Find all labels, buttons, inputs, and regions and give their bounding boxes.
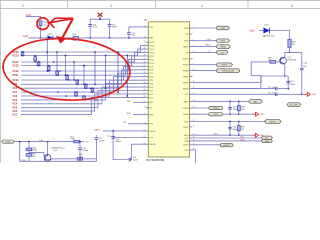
port tag SDA — [261, 139, 273, 142]
svg-text:2.2uF: 2.2uF — [93, 27, 99, 29]
svg-text:REG1: REG1 — [183, 82, 189, 84]
svg-text:VC15: VC15 — [12, 54, 19, 57]
wire bus row VC16 — [21, 46, 147, 52]
svg-text:SRP: SRP — [127, 101, 132, 103]
svg-text:42: 42 — [144, 41, 146, 43]
svg-text:REGS: REGS — [183, 88, 189, 90]
wire DCHG row — [192, 107, 209, 109]
wire BAT row — [192, 100, 249, 102]
capacitor C17 cell — [95, 135, 97, 137]
junction — [48, 70, 50, 72]
resistor R65 — [270, 61, 276, 64]
wire VIO row — [192, 93, 275, 95]
resistor R50 on rail — [73, 37, 79, 40]
svg-text:GND: GND — [260, 114, 265, 116]
resistor bus R49 — [75, 92, 78, 96]
wire ALERT row — [192, 144, 220, 146]
capacitor C22 — [276, 93, 277, 96]
svg-text:VC16: VC16 — [149, 42, 155, 44]
junction — [238, 113, 240, 115]
wire HDQ row — [192, 134, 254, 136]
wire REG1 to C19 — [290, 52, 302, 67]
svg-text:C21 1uF: C21 1uF — [268, 87, 276, 89]
junction — [65, 74, 67, 76]
wire between divider — [28, 151, 30, 154]
svg-text:C22 1uF: C22 1uF — [268, 93, 276, 95]
junction — [66, 74, 68, 76]
junction — [57, 91, 59, 93]
svg-text:100nF: 100nF — [99, 140, 105, 142]
svg-text:BQ76940PFBR: BQ76940PFBR — [147, 158, 165, 162]
wire SDA row — [192, 140, 261, 142]
sheet border top band — [0, 0, 320, 163]
wire C21 to vertical — [277, 88, 288, 90]
svg-text:PACK: PACK — [206, 44, 212, 47]
capacitor C14 — [127, 33, 131, 35]
svg-text:VC14: VC14 — [149, 49, 155, 51]
junction — [77, 79, 79, 81]
junction — [59, 70, 61, 72]
wire C16 bottom lead — [89, 27, 91, 38]
svg-text:VC4: VC4 — [12, 103, 17, 106]
wire bus row VC3 — [21, 91, 147, 108]
wire bus row VC7 — [21, 77, 147, 92]
wire cap tops — [90, 18, 109, 20]
wire R62 right — [79, 141, 83, 143]
svg-text:6: 6 — [193, 57, 194, 59]
junction — [73, 61, 75, 63]
svg-text:24: 24 — [144, 106, 146, 108]
svg-text:SDA: SDA — [184, 140, 189, 143]
U1 right pins — [183, 27, 195, 152]
svg-text:VC1: VC1 — [12, 114, 17, 117]
junction — [22, 55, 24, 57]
wire C12 branch — [112, 131, 114, 137]
junction — [65, 55, 67, 57]
annotation ellipse — [1, 35, 131, 103]
svg-text:HDQ: HDQ — [184, 135, 189, 137]
bus net labels VC16..VC1 — [12, 51, 19, 117]
svg-text:VSS: VSS — [184, 150, 189, 152]
wire base path from REGS pin — [192, 62, 270, 89]
capacitor C12 — [111, 137, 115, 139]
wire DSG — [192, 40, 216, 42]
resistor bus R44 — [56, 71, 59, 75]
capacitor C23 — [228, 101, 231, 114]
svg-text:100nF: 100nF — [116, 141, 122, 143]
wire bus row VC11 — [21, 63, 147, 75]
svg-text:PACK: PACK — [221, 46, 227, 49]
svg-text:VIO: VIO — [185, 94, 189, 96]
power arrow GND row1 — [253, 112, 259, 116]
junction C16 bottom — [89, 37, 91, 39]
resistor R63 — [288, 39, 291, 47]
svg-text:PACK: PACK — [183, 46, 189, 49]
wire TS3 — [113, 137, 147, 139]
power arrow GND row2 — [253, 133, 259, 137]
junction — [34, 61, 36, 63]
wire SCL row — [192, 137, 261, 139]
svg-text:SRP: SRP — [149, 102, 154, 104]
svg-text:SRN: SRN — [126, 113, 131, 115]
svg-text:FUSE_BLOW: FUSE_BLOW — [222, 71, 234, 73]
svg-text:VC11: VC11 — [12, 74, 19, 77]
capacitor C16 — [88, 25, 92, 27]
wire bus row VC5 — [21, 84, 147, 100]
port tag PACK — [216, 45, 231, 49]
svg-text:10k: 10k — [268, 60, 271, 62]
port tag DCHG oval — [209, 106, 223, 109]
svg-text:5: 5 — [291, 4, 293, 8]
resistor R56 — [26, 148, 32, 151]
junction — [83, 95, 85, 97]
junction C13/R60 — [79, 158, 81, 160]
junction — [85, 84, 87, 86]
svg-text:9: 9 — [193, 75, 194, 77]
wire C13 bottom — [79, 150, 81, 159]
port tag LD — [216, 51, 228, 55]
junction — [105, 55, 107, 57]
capacitor C24 — [228, 122, 231, 136]
junction — [94, 51, 96, 53]
port tag CHG oval — [209, 113, 223, 116]
junction — [34, 55, 36, 57]
junction power/top wire — [99, 18, 101, 20]
svg-text:10R: 10R — [73, 40, 77, 42]
junction RP/rail — [40, 37, 42, 39]
resistor bus R47 — [84, 84, 87, 88]
junction — [85, 87, 87, 89]
svg-text:Q16: Q16 — [54, 150, 58, 152]
wire C14 top lead — [128, 27, 130, 33]
svg-text:1k: 1k — [44, 25, 46, 27]
svg-text:DSG: DSG — [207, 39, 212, 41]
resistor bus R46 — [76, 80, 79, 84]
wire rail right segment — [79, 37, 147, 39]
wire C18 branch vertical — [287, 76, 289, 89]
junction — [117, 91, 119, 93]
wire Q16 drain — [51, 158, 77, 160]
junction — [47, 141, 49, 143]
junction — [75, 91, 77, 93]
svg-text:Cat5: Cat5 — [250, 29, 256, 32]
svg-text:100R: 100R — [70, 139, 75, 141]
svg-text:PDSG: PDSG — [221, 65, 227, 67]
svg-text:DSG: DSG — [221, 41, 226, 43]
wire bus vertical C — [73, 62, 75, 80]
wire bus vertical tall — [94, 52, 96, 84]
junction — [69, 79, 71, 81]
resistor bus R48 — [91, 88, 94, 92]
op-amp U1 AFE IC body — [148, 22, 189, 157]
svg-text:VC7: VC7 — [12, 91, 17, 94]
wire bus vertical tall — [117, 52, 119, 92]
svg-text:17: 17 — [193, 126, 195, 128]
port tag ALERT oval — [220, 144, 233, 147]
junction — [229, 121, 231, 123]
wire bus vertical tall — [126, 56, 128, 97]
svg-text:VC8: VC8 — [12, 87, 17, 90]
port tag CHG — [216, 26, 230, 30]
junction emitter node — [284, 75, 286, 77]
annotation arrow down — [57, 18, 73, 43]
junction collector node — [289, 52, 291, 54]
wire RST row — [192, 121, 264, 123]
svg-text:2: 2 — [193, 33, 194, 35]
resistor R62 — [74, 140, 79, 143]
junction — [83, 83, 85, 85]
svg-text:VC12: VC12 — [149, 56, 155, 58]
junction C19/GND row — [301, 93, 303, 95]
svg-text:CHG: CHG — [213, 114, 218, 116]
wire top CAT5 horizontal — [26, 16, 41, 20]
junction — [75, 95, 77, 97]
svg-text:VC6: VC6 — [12, 95, 17, 98]
junction — [38, 65, 40, 67]
wire bus row VC2 — [21, 94, 147, 111]
svg-text:GND: GND — [312, 94, 317, 96]
resistor bus R45 — [66, 75, 69, 80]
port tag BAT — [249, 100, 262, 104]
port tag CAT5 (bottom) — [2, 140, 15, 143]
svg-text:VC10: VC10 — [12, 79, 19, 82]
capacitor C19 — [300, 68, 304, 70]
svg-text:BAWD: BAWD — [94, 128, 101, 131]
wire C17 bottom — [95, 140, 97, 162]
junction — [105, 87, 107, 89]
junction BAWD — [112, 130, 114, 132]
capacitor C18 — [286, 81, 290, 83]
wire bus row VC10 — [21, 66, 147, 80]
resistor R60 — [77, 158, 82, 161]
wire bus row VC1 — [21, 97, 147, 114]
wire R65 to base — [276, 61, 281, 63]
wire C22 right — [277, 93, 305, 95]
wire FUSE — [192, 70, 216, 72]
wire bus row VC13 — [21, 56, 147, 66]
svg-text:VC10: VC10 — [149, 63, 155, 65]
wire bottom rail — [15, 141, 75, 143]
junction — [229, 134, 231, 136]
svg-text:REGIN: REGIN — [149, 144, 156, 146]
wire VSS down — [192, 150, 195, 163]
junction — [95, 99, 97, 101]
wire bus row VC8 — [21, 73, 147, 88]
junction — [46, 70, 48, 72]
port tag NC_SPE — [287, 103, 301, 107]
svg-text:SDA: SDA — [265, 140, 270, 143]
svg-text:POW: POW — [21, 160, 26, 162]
svg-text:ALRT: ALRT — [183, 144, 189, 147]
svg-text:9k1: 9k1 — [32, 156, 35, 158]
svg-text:U?: U? — [144, 18, 148, 22]
wire LD — [192, 51, 216, 53]
junction — [46, 51, 48, 53]
svg-text:0.33uF: 0.33uF — [82, 150, 89, 152]
resistor bus R50 — [83, 96, 86, 100]
junction — [56, 74, 58, 76]
svg-text:D16: D16 — [265, 25, 268, 27]
wire RP1 to rail — [40, 26, 42, 38]
wire bus row VC12 — [21, 59, 147, 71]
junction — [66, 79, 68, 81]
resistor bus R43 — [47, 66, 50, 72]
svg-text:3: 3 — [110, 4, 112, 8]
svg-text:10k: 10k — [79, 156, 82, 158]
junction — [238, 134, 240, 136]
svg-text:VC5: VC5 — [12, 99, 17, 102]
svg-text:CHG2: CHG2 — [183, 114, 189, 116]
wire emitter down — [284, 64, 286, 76]
wire left drop — [20, 142, 97, 162]
junction C15 bottom — [109, 37, 111, 39]
svg-text:2: 2 — [22, 4, 24, 8]
wire divider drop — [28, 142, 30, 148]
wire R63 to junction — [289, 47, 291, 52]
junction — [238, 101, 240, 103]
svg-text:D15: D15 — [48, 34, 51, 36]
wire bus row VC15 — [21, 49, 147, 55]
diode D16 — [259, 28, 270, 34]
wire C11 to REGIN — [131, 144, 146, 159]
wire BAWD — [103, 130, 147, 132]
wire R60 right — [83, 159, 97, 162]
sheet zone numbers — [22, 4, 293, 8]
wire SRN — [133, 113, 147, 115]
power port VPWR bowtie — [98, 13, 103, 20]
annotation arrow to circle — [50, 18, 73, 28]
junction — [117, 51, 119, 53]
wire D16 to corner — [270, 31, 290, 40]
svg-text:SRST: SRST — [183, 76, 189, 78]
junction — [287, 88, 289, 90]
junction — [22, 51, 24, 53]
wire bus vertical tall — [56, 52, 58, 75]
junction — [48, 65, 50, 67]
svg-text:NC_SPE: NC_SPE — [290, 105, 299, 107]
junction — [238, 121, 240, 123]
svg-text:Cat5: Cat5 — [23, 35, 29, 38]
U1 left pins — [144, 26, 157, 147]
power arrow GND right — [305, 92, 311, 96]
resistor RP1 in red circle — [39, 21, 42, 26]
junction — [53, 61, 55, 63]
wire C19 bottom to GND row — [301, 70, 303, 95]
wire bus row VC9 — [21, 70, 147, 85]
diode D15 — [48, 36, 53, 41]
junction — [56, 51, 58, 53]
svg-text:DCHG: DCHG — [183, 108, 189, 110]
resistor R57 — [26, 154, 32, 157]
wire C15 top lead — [109, 19, 111, 24]
junction — [83, 65, 85, 67]
svg-text:DCHG: DCHG — [213, 108, 219, 110]
junction — [94, 83, 96, 85]
junction — [229, 101, 231, 103]
svg-text:DTA123JE: DTA123JE — [287, 58, 297, 61]
junction — [56, 74, 58, 76]
wire SRP — [133, 101, 147, 103]
junction — [229, 113, 231, 115]
capacitor C15 — [108, 25, 112, 27]
capacitor C21 — [276, 87, 277, 90]
wire Q16 source up — [47, 142, 49, 154]
resistor R66 — [237, 101, 240, 114]
svg-text:DSG: DSG — [184, 41, 189, 43]
wire bus row VC4 — [21, 87, 147, 104]
wire bus vertical B — [65, 56, 67, 76]
svg-text:VC13: VC13 — [12, 64, 19, 67]
wire collector jog — [285, 52, 290, 57]
wire PDSG — [192, 64, 216, 66]
wire divider bottom — [28, 156, 30, 161]
junction — [19, 141, 21, 143]
svg-text:VC13: VC13 — [149, 52, 155, 54]
port tag PDSG — [216, 63, 233, 67]
svg-text:1M: 1M — [241, 129, 244, 131]
junction — [126, 55, 128, 57]
wire rail left segment — [29, 37, 48, 39]
wire C14 bottom lead — [128, 35, 130, 38]
junction — [126, 95, 128, 97]
port tag FUSE_BLOW — [216, 69, 240, 73]
transistor Q16 MOSFET — [44, 153, 51, 161]
junction — [92, 91, 94, 93]
port tag RESET — [265, 120, 282, 124]
junction — [28, 141, 30, 143]
wire bus vertical tall — [105, 56, 107, 89]
resistor bus R41 — [34, 56, 37, 63]
svg-text:Cat5: Cat5 — [39, 139, 44, 142]
transistor Q17 — [280, 57, 287, 64]
wire CHG — [192, 27, 216, 29]
svg-text:PCHG: PCHG — [183, 59, 189, 61]
wire CHG2 row — [192, 113, 254, 115]
capacitor C13 — [79, 142, 81, 147]
svg-text:PDSG: PDSG — [183, 65, 189, 67]
junction — [83, 99, 85, 101]
svg-text:4: 4 — [201, 4, 203, 8]
svg-text:CHG: CHG — [221, 28, 226, 30]
junction — [38, 61, 40, 63]
port tag DSG — [216, 39, 230, 43]
wire bus vertical D — [83, 66, 85, 85]
svg-text:80.6k: 80.6k — [32, 150, 37, 152]
junction — [79, 141, 81, 143]
junction — [65, 95, 67, 97]
capacitor C11 — [129, 158, 130, 162]
svg-text:RESET: RESET — [269, 122, 276, 124]
svg-text:VC12: VC12 — [12, 70, 19, 73]
junction — [56, 70, 58, 72]
port tag SCL — [261, 136, 273, 139]
junction — [77, 84, 79, 86]
wire C15 bottom lead — [109, 27, 111, 38]
svg-text:SRN: SRN — [149, 114, 154, 116]
wire C16 top lead — [89, 19, 91, 24]
svg-text:VC15: VC15 — [149, 46, 155, 48]
junction — [89, 87, 91, 89]
wire rail mid segment — [53, 37, 73, 39]
wire REG1 row loop — [192, 76, 288, 82]
resistor bus R42 — [37, 62, 40, 66]
wire bus row VC6 — [21, 80, 147, 96]
resistor bus R40 — [21, 52, 24, 56]
wire bus vertical A — [46, 38, 48, 71]
svg-text:ALERT: ALERT — [223, 144, 230, 147]
resistor R67 — [237, 122, 240, 136]
junction C14 bottom — [128, 37, 130, 39]
